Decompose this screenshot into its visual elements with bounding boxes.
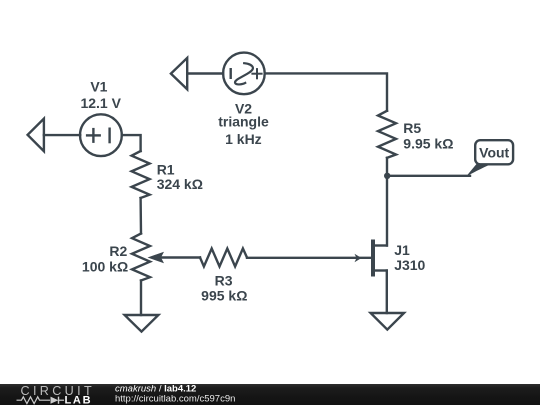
label R2 designator bbox=[109, 243, 127, 259]
Vout flag box bbox=[475, 140, 513, 164]
svg-text:R3: R3 bbox=[215, 272, 233, 288]
CircuitLab logo text LAB bbox=[65, 394, 93, 405]
svg-text:9.95 kΩ: 9.95 kΩ bbox=[403, 136, 453, 152]
ground GND1 (left of V1) bbox=[28, 119, 44, 152]
wire R2 wiper to R3 bbox=[156, 256, 200, 258]
svg-text:LAB: LAB bbox=[65, 394, 93, 405]
label J1 part number bbox=[394, 257, 425, 273]
attribution URL line 2 bbox=[115, 394, 235, 405]
wire GND3 to V2 bbox=[187, 72, 223, 74]
CircuitLab logo resistor zigzag bbox=[17, 397, 51, 404]
potentiometer R2 bbox=[132, 234, 150, 281]
svg-text:995 kΩ: 995 kΩ bbox=[201, 288, 247, 304]
JFET J1 bbox=[373, 242, 387, 275]
wire V2 to R5 bbox=[265, 73, 387, 110]
label R3 designator bbox=[215, 272, 233, 288]
svg-text:100 kΩ: 100 kΩ bbox=[82, 259, 128, 275]
CircuitLab logo diode bbox=[51, 397, 65, 404]
label V2 waveform bbox=[218, 114, 269, 130]
wire GND1 to V1 bbox=[44, 134, 80, 136]
label R5 value bbox=[403, 136, 453, 152]
gate arrow of J1 bbox=[355, 254, 362, 262]
label R2 value bbox=[82, 259, 128, 275]
node junction (Vout node) bbox=[384, 173, 390, 179]
label R5 designator bbox=[403, 120, 421, 136]
svg-text:R1: R1 bbox=[157, 161, 175, 177]
svg-text:V1: V1 bbox=[90, 78, 107, 94]
svg-text:12.1 V: 12.1 V bbox=[80, 95, 121, 111]
ground GND2 (below R2) bbox=[125, 315, 159, 332]
ground GND4 (below J1) bbox=[371, 313, 404, 330]
svg-text:R2: R2 bbox=[109, 243, 127, 259]
wire node to J1 drain bbox=[386, 176, 388, 246]
svg-text:Vout: Vout bbox=[479, 145, 509, 161]
svg-text:R5: R5 bbox=[403, 120, 421, 136]
wire J1 source to ground bbox=[386, 271, 388, 314]
label V2 frequency bbox=[225, 131, 262, 147]
svg-text:http://circuitlab.com/c597c9n: http://circuitlab.com/c597c9n bbox=[115, 394, 235, 405]
Vout flag tail bbox=[466, 163, 495, 177]
svg-text:J1: J1 bbox=[394, 242, 410, 258]
label R1 designator bbox=[157, 161, 175, 177]
attribution text line 1 bbox=[115, 384, 196, 395]
label R1 value bbox=[157, 176, 203, 192]
wire R3 to J1 gate bbox=[247, 257, 371, 259]
resistor R3 bbox=[200, 249, 247, 267]
label R3 value bbox=[201, 288, 247, 304]
wire V1 to R1 bbox=[122, 135, 141, 151]
svg-text:324 kΩ: 324 kΩ bbox=[157, 176, 203, 192]
wire R1 to R2 bbox=[139, 198, 142, 234]
R2 wiper arrow bbox=[148, 252, 165, 264]
CircuitLab logo text CIRCUIT bbox=[21, 384, 96, 398]
wire R5 to node bbox=[386, 158, 388, 176]
voltage source V2 bbox=[223, 53, 265, 95]
label J1 designator bbox=[394, 242, 410, 258]
label Vout bbox=[479, 145, 509, 161]
resistor R5 bbox=[378, 111, 396, 158]
svg-text:triangle: triangle bbox=[218, 114, 269, 130]
ground GND3 (left of V2) bbox=[171, 58, 187, 89]
label V1 designator bbox=[90, 78, 107, 94]
svg-text:J310: J310 bbox=[394, 257, 425, 273]
voltage source V1 bbox=[80, 114, 122, 156]
wire node to Vout flag bbox=[387, 175, 470, 177]
svg-text:1 kHz: 1 kHz bbox=[225, 131, 262, 147]
wire R2 to ground bbox=[140, 281, 142, 316]
resistor R1 bbox=[132, 151, 150, 198]
label V1 value bbox=[80, 95, 121, 111]
label V2 designator bbox=[235, 100, 252, 116]
